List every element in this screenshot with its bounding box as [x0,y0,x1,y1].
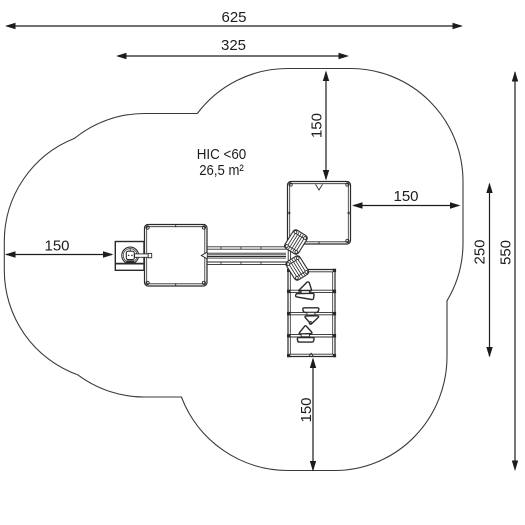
climbing hold 1 rung tab [301,291,309,294]
connector vertical rails between top platform and ladder unit [287,244,289,270]
ladder post TR [333,269,336,272]
ladder post TL [287,269,290,272]
arrowhead 625 left [5,23,16,29]
left platform top mid tick [175,225,177,228]
dimension 150 right horizontal line [354,205,458,207]
left platform right-edge notch [201,252,206,258]
ladder bottom-center notch [309,353,314,356]
climbing hold 3 trapezoid above rung 2 [303,308,319,313]
ramp upper (45 degree) [283,229,308,256]
svg-text:625: 625 [221,9,246,26]
svg-text:550: 550 [498,240,515,265]
ladder rail post R1 [333,290,336,293]
left platform corner post TL [146,226,149,229]
left platform corner post TR [202,226,205,229]
dimension 325 line [118,55,347,57]
climbing hold 5 rung tab [301,334,309,337]
dimension 150 top vertical line [325,72,327,179]
top platform bottom mid tick [318,241,320,244]
top platform corner post BR [346,239,349,242]
top platform corner post BL [289,239,292,242]
top platform corner post TR [346,183,349,186]
climbing hold 6 low bar below rung 3 [297,338,314,343]
steering wheel inner ring [123,249,137,263]
ladder post BL [287,354,290,357]
svg-text:HIC <60: HIC <60 [197,146,247,163]
ladder rung 2 [288,311,335,313]
left platform corner post BR [202,281,205,284]
steering hub dot left [128,255,130,257]
steering wheel shade [126,260,135,263]
steering hub dot right [131,255,133,257]
arrowhead 150 right left [352,202,363,208]
arrowhead 325 right [339,53,350,59]
arrowhead 625 right [453,23,464,29]
ladder unit (lower rectangle) outer frame [288,270,335,357]
svg-text:150: 150 [309,113,326,138]
steering panel base line [116,263,143,265]
arrowhead 150 right right [450,202,461,208]
arrowhead 150 bottom up [310,358,316,369]
left platform inner frame [147,227,205,284]
ladder rail post R3 [333,334,336,337]
bridge handrail ticks top [220,247,222,249]
arrowhead 550 up [512,71,518,82]
dimension 625 line [7,25,461,27]
left platform outer frame [145,225,208,287]
arrowhead 150 top up [323,71,329,82]
bridge top handrail [207,246,288,248]
ladder rung 3 [288,334,335,336]
steering panel box [115,242,144,271]
safety zone outline (cloud) [4,69,463,471]
svg-text:150: 150 [393,188,418,205]
ladder post BR [333,354,336,357]
top platform left mid tick [288,212,291,215]
climbing hold 4 triangle apex down [305,316,319,324]
svg-text:26,5 m²: 26,5 m² [199,162,244,179]
steering rod [135,254,149,257]
ladder rail post L2 [287,312,290,315]
arrowhead 250 down [486,347,492,358]
arrowhead 150 left left [5,251,16,257]
svg-text:150: 150 [298,397,315,422]
bridge deck planks [207,252,286,254]
arrowhead 150 top down [323,170,329,181]
top platform inner frame [290,184,349,242]
steering rod end cap [148,253,152,257]
climbing hold 3 rung tab [307,312,315,315]
dimension 150 bottom vertical line [312,359,314,470]
svg-text:250: 250 [472,239,489,264]
svg-text:325: 325 [221,37,246,54]
dimension 150 left horizontal line [6,254,112,256]
climbing hold 2 wedge below rung 1 [296,293,314,299]
climbing hold 5 triangle apex up [299,326,312,334]
top platform right mid tick [348,212,351,215]
steering wheel hub [126,251,134,259]
dimension 250 vertical line [489,184,491,356]
ladder rail post R2 [333,312,336,315]
arrowhead 150 left right [103,251,114,257]
ladder rail post L1 [287,290,290,293]
arrowhead 250 up [486,183,492,194]
dimension 550 vertical line [514,72,516,469]
top platform top-center notch [316,184,323,190]
ladder rung 1 [288,289,335,291]
top platform corner post TL [289,183,292,186]
top platform outer frame [288,182,351,245]
ladder unit inner frame [290,272,332,354]
arrowhead 325 left [116,53,127,59]
bridge handrail ticks bottom [220,262,222,264]
left platform corner post BL [146,281,149,284]
left platform bottom mid tick [175,283,177,286]
arrowhead 550 down [512,461,518,472]
svg-text:150: 150 [44,238,69,255]
bridge bottom handrail [207,261,288,263]
arrowhead 150 bottom down [310,461,316,472]
steering wheel outer ring [122,247,139,264]
ramp lower (45 degree) [285,255,310,282]
ladder rail post L3 [287,334,290,337]
steering hub top tick [129,249,131,251]
climbing hold bolt circle [309,322,312,325]
climbing hold 1 triangle apex top-right [299,282,312,291]
